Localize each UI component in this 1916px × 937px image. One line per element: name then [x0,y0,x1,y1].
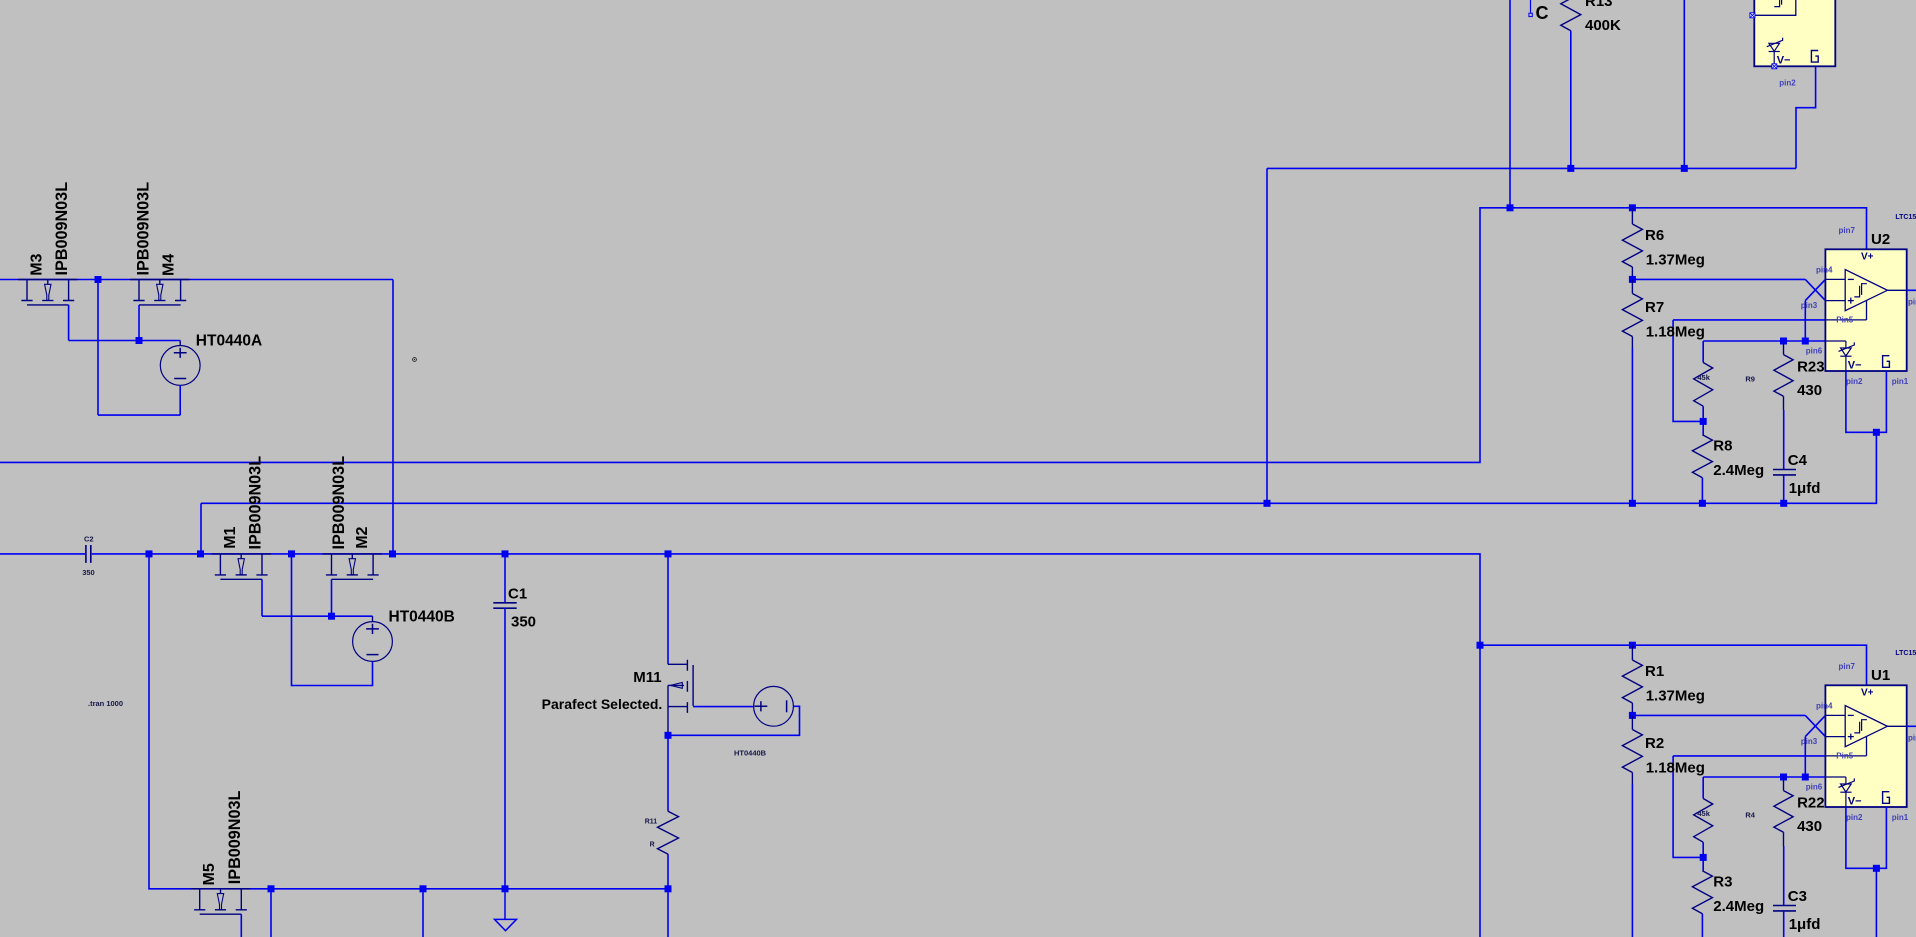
wire main rail to U1 V+ [92,554,1867,685]
U2 output wire [1887,289,1906,291]
svg-text:M5: M5 [201,863,218,885]
svg-text:HT0440B: HT0440B [734,748,767,757]
node 45k/R8 junction [1700,418,1707,425]
wire 45k bottom [1702,842,1704,857]
U3 pin marker bottom [1772,64,1777,69]
wire pin2/pin1 [1846,371,1887,432]
wire M5 body drop [240,914,242,937]
svg-text:1.18Meg: 1.18Meg [1646,759,1705,776]
wire gate column [97,280,99,416]
resistor R1 leads [1631,645,1633,715]
resistor R7 leads [1631,279,1633,348]
U1 output wire [1887,725,1906,727]
svg-text:R7: R7 [1645,299,1664,316]
node top rail junction [95,276,102,283]
svg-text:IPB009N03L: IPB009N03L [247,456,265,550]
node rail B junction R7 [1629,500,1636,507]
U1 op-amp triangle [1825,706,1887,756]
wire R8 bottom [1701,478,1703,504]
wire HT0440A bottom lead [179,385,181,415]
wire 45k bottom [1702,406,1704,421]
U2 zener [1825,340,1846,342]
svg-text:430: 430 [1797,818,1822,835]
node main rail junction 5 [502,550,509,557]
transistor M5 (IPB009N03L power MOSFET) [191,889,251,914]
wire divider to comparator [1632,278,1805,280]
wire rail B [201,432,1876,503]
node ground rail right end [665,885,672,892]
wire rail B drop to main rail [200,503,202,554]
svg-text:pin3: pin3 [1801,301,1818,310]
svg-text:M2: M2 [354,526,371,548]
svg-text:M11: M11 [633,669,661,686]
node marker small circle [413,358,417,362]
wire 45k top [1702,341,1704,363]
svg-text:IPB009N03L: IPB009N03L [53,182,71,276]
wire pin3 drop [1804,301,1806,341]
wire top column 2 [1683,0,1685,168]
U3 zener [1767,38,1783,67]
node R6 top junction [1629,204,1636,211]
resistor R9 (45k) [1694,363,1713,407]
wire C3 bottom [1783,911,1785,937]
svg-text:R: R [650,841,655,848]
node R6/R7 divider node [1629,276,1636,283]
svg-text:M1: M1 [222,526,239,548]
svg-text:M4: M4 [161,254,178,276]
svg-text:pin: pin [1908,734,1916,743]
resistor R22 [1774,791,1793,833]
svg-text:1.37Meg: 1.37Meg [1646,252,1705,269]
wire HT0440A minus return [98,414,180,416]
node rail B junction R8 [1699,500,1706,507]
svg-text:pin2: pin2 [1846,377,1863,386]
wire ground rail [149,554,668,889]
svg-text:V−: V− [1848,360,1862,372]
node main rail junction 3 [288,550,295,557]
node pin1/pin2 junction [1873,429,1880,436]
svg-text:2.4Meg: 2.4Meg [1713,898,1764,915]
svg-text:R1: R1 [1645,663,1664,680]
wire VCC top rail [0,279,393,281]
voltage source HT0440B (M11 driver) [754,686,794,726]
node pin3 junction [1802,338,1809,345]
svg-text:pin1: pin1 [1892,377,1909,386]
wire pin2/pin1 [1846,807,1887,868]
wire pin6 net [1703,776,1825,778]
wire HT0440B minus return [292,554,373,686]
resistor R13 (cut at top) [1561,0,1581,31]
wire R11 bottom to edge [667,854,669,937]
node pin1/pin2 junction [1873,865,1880,872]
node rail junction top column [1507,204,1514,211]
wire 45k top [1702,777,1704,799]
wire R13 bottom [1570,31,1572,169]
svg-text:pin6: pin6 [1806,346,1823,355]
svg-text:R8: R8 [1713,438,1732,455]
svg-text:Pin5: Pin5 [1836,751,1853,760]
wire R3 top [1702,857,1704,870]
wire M11 source to HT0440B [693,706,753,708]
svg-text:R2: R2 [1645,735,1664,752]
wire crossing A [1805,279,1825,300]
wire mid rail A to U2 V+ [0,208,1867,463]
svg-text:C2: C2 [84,534,94,543]
svg-text:pin1: pin1 [1892,813,1909,822]
node HT0440A plus junction [136,337,143,344]
resistor R6 leads [1631,208,1633,280]
resistor R2 [1622,730,1642,773]
svg-text:C4: C4 [1788,452,1808,469]
svg-text:2.4Meg: 2.4Meg [1713,462,1764,479]
svg-text:M3: M3 [29,253,46,275]
svg-text:LTC1540: LTC1540 [1895,650,1916,657]
comparator U1 (LTC1540 block) [1825,685,1906,807]
node M11 gate junction [665,732,672,739]
wire C1 bottom [504,608,506,889]
svg-text:R23: R23 [1797,359,1825,376]
svg-text:U1: U1 [1871,667,1890,684]
node top net junction 2 [1681,165,1688,172]
wire R3 bottom [1701,914,1703,937]
wire x1480 continues to bottom edge [1479,645,1481,937]
resistor R11 [658,811,679,854]
U1 zener [1825,776,1846,778]
comparator U2 (LTC1540 block) [1825,249,1906,371]
transistor M11 (nmos, gate left) [668,660,693,736]
svg-text:V+: V+ [1861,687,1874,698]
wire divider to comparator [1632,714,1805,716]
resistor R22 leads [1783,777,1785,846]
svg-text:pin4: pin4 [1816,702,1833,711]
wire HT0440B return loop [668,706,800,735]
wire top box G pin steps [1796,66,1816,168]
U1 G glyph [1883,792,1890,804]
wire pin3 drop [1804,737,1806,777]
svg-text:R11: R11 [645,819,658,826]
svg-text:U2: U2 [1871,231,1890,248]
node R23 top junction [1780,338,1787,345]
comparator U3 (top, cut by screen edge) [1754,0,1835,66]
wire M3 body drop [68,305,70,341]
svg-text:Parafect Selected.: Parafect Selected. [542,696,663,712]
wire C4 bottom [1783,475,1785,503]
svg-text:R3: R3 [1713,874,1732,891]
svg-text:45k: 45k [1697,373,1710,382]
node rail B junction C4 [1780,500,1787,507]
wire stub down A [270,889,272,937]
ground symbol [495,889,517,931]
U2 G glyph [1883,356,1890,368]
wire M2 body drop [331,579,333,616]
node R22 top junction [1780,774,1787,781]
node pin3 junction [1802,774,1809,781]
node main rail junction 4 [389,550,396,557]
wire right column [1266,168,1268,503]
svg-text:IPB009N03L: IPB009N03L [226,791,244,885]
wire to R11 [667,735,669,811]
svg-text:pin3: pin3 [1801,737,1818,746]
svg-text:Pin5: Pin5 [1836,315,1853,324]
wire C1 top [504,554,506,603]
svg-text:R22: R22 [1797,795,1825,812]
wire R22 to cap [1783,846,1785,906]
svg-text:350: 350 [511,614,536,631]
wire pin6 net [1703,340,1825,342]
svg-text:1μfd: 1μfd [1789,916,1821,933]
resistor R6 [1622,224,1642,267]
svg-text:R13: R13 [1585,0,1613,10]
svg-text:45k: 45k [1697,809,1710,818]
capacitor C2 [86,545,91,563]
node main rail junction 1 [146,550,153,557]
node ground rail junction B [420,885,427,892]
svg-text:R9: R9 [1745,375,1755,384]
node rail B junction [1264,500,1271,507]
wire feedback L [1673,756,1703,858]
svg-text:.tran 1000: .tran 1000 [88,699,123,708]
U2 op-amp triangle [1825,270,1887,320]
wire main rail left of C2 [0,553,85,555]
wire Pin5 net [1673,319,1825,321]
svg-text:C3: C3 [1788,888,1807,905]
wire pin junction to edge [1875,868,1877,937]
svg-text:IPB009N03L: IPB009N03L [330,456,348,550]
wire Pin5 net [1673,755,1825,757]
svg-text:pin: pin [1908,298,1916,307]
wire HT0440B plus net [262,615,373,617]
node R1/R2 divider node [1629,712,1636,719]
transistor M1 (IPB009N03L power MOSFET) [211,554,271,579]
svg-text:LTC1540: LTC1540 [1895,214,1916,221]
wire crossing B [1805,279,1825,300]
U3 Pin5 internal wire [1754,0,1796,15]
wire M1 body drop [261,579,263,616]
svg-text:pin2: pin2 [1846,813,1863,822]
wire HT0440B top stub [372,616,374,621]
transistor M2 (IPB009N03L power MOSFET) [323,554,383,579]
wire feedback L [1673,320,1703,422]
resistor R4 (45k) [1694,799,1713,843]
svg-text:R6: R6 [1645,227,1664,244]
svg-text:pin2: pin2 [1779,78,1796,87]
voltage source HT0440A [160,346,200,386]
svg-text:400K: 400K [1585,17,1621,34]
svg-text:C1: C1 [508,586,527,603]
svg-text:V+: V+ [1861,251,1874,262]
svg-text:1.18Meg: 1.18Meg [1646,323,1705,340]
wire R2 bottom [1631,784,1633,937]
capacitor C1 [493,603,516,608]
U3 pin marker left [1750,13,1755,18]
resistor R23 leads [1783,341,1785,410]
node lower feed junction [1477,642,1484,649]
capacitor C (cut at top) [1530,0,1532,13]
svg-text:pin7: pin7 [1839,662,1856,671]
resistor R7 [1622,294,1642,337]
transistor M4 (IPB009N03L power MOSFET) [130,280,190,305]
node top net junction R13 [1567,165,1574,172]
U3 hysteresis fragment [1774,0,1787,7]
node main rail junction 6 [665,550,672,557]
node HT0440B plus junction [328,613,335,620]
svg-text:430: 430 [1797,382,1822,399]
svg-text:pin4: pin4 [1816,266,1833,275]
svg-text:HT0440A: HT0440A [196,333,262,350]
wire R8 top [1702,421,1704,434]
resistor R8 [1692,435,1712,478]
wire from top rail down to main rail [392,280,394,554]
capacitor C3 [1773,906,1796,911]
wire crossing A [1805,715,1825,736]
svg-text:1μfd: 1μfd [1789,480,1821,497]
svg-text:C: C [1536,3,1549,23]
resistor R1 [1622,660,1642,703]
svg-text:pin7: pin7 [1839,226,1856,235]
svg-text:IPB009N03L: IPB009N03L [135,182,153,276]
svg-text:V−: V− [1777,55,1791,67]
transistor M3 (IPB009N03L power MOSFET) [18,280,78,305]
wire R7 bottom [1631,348,1633,503]
node R1 top junction [1629,642,1636,649]
U3 G glyph [1811,51,1818,63]
svg-text:HT0440B: HT0440B [389,608,455,625]
wire M11 drain [667,554,669,664]
svg-text:pin6: pin6 [1806,782,1823,791]
capacitor C4 [1773,470,1796,475]
wire top net [1267,167,1796,169]
node ground rail junction C1 [502,885,509,892]
wire top column [1509,0,1511,208]
wire HT0440A top stub [179,341,181,346]
wire HT0440A plus net [69,340,181,342]
node ground rail junction A [268,885,275,892]
resistor R23 [1774,355,1793,397]
node main rail junction 2 [197,550,204,557]
voltage source HT0440B [353,622,393,662]
svg-text:1.37Meg: 1.37Meg [1646,688,1705,705]
wire M4 body drop [138,305,140,341]
wire crossing B [1805,715,1825,736]
wire R23 to cap [1783,410,1785,470]
svg-text:R4: R4 [1745,811,1755,820]
node 45k/R3 junction [1700,854,1707,861]
resistor R3 [1692,871,1712,914]
wire stub down B [422,889,424,937]
svg-text:V−: V− [1848,796,1862,808]
resistor R2 leads [1631,715,1633,784]
svg-text:350: 350 [82,568,95,577]
